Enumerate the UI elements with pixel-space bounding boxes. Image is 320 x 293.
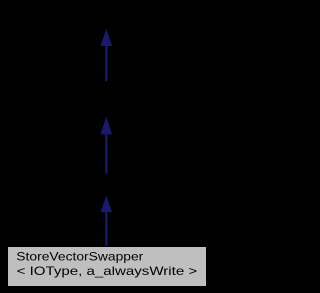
arrowhead 2 — [101, 117, 113, 135]
wire shaft 1 — [105, 45, 107, 82]
svg-text:< IOType, a_alwaysWrite >: < IOType, a_alwaysWrite > — [17, 264, 198, 278]
svg-text:StoreVectorSwapper: StoreVectorSwapper — [16, 250, 143, 264]
node StoreVectorSwapper — [8, 247, 207, 287]
arrow edge 3 (bottom) — [101, 196, 113, 247]
arrow edge 1 (top) — [101, 29, 113, 82]
arrowhead 3 — [101, 196, 113, 212]
arrow edge 2 (middle) — [101, 117, 113, 174]
wire shaft 2 — [105, 133, 107, 174]
arrowhead 1 — [101, 29, 113, 46]
wire shaft 3 — [105, 211, 107, 248]
inheritance graph — [0, 0, 213, 293]
